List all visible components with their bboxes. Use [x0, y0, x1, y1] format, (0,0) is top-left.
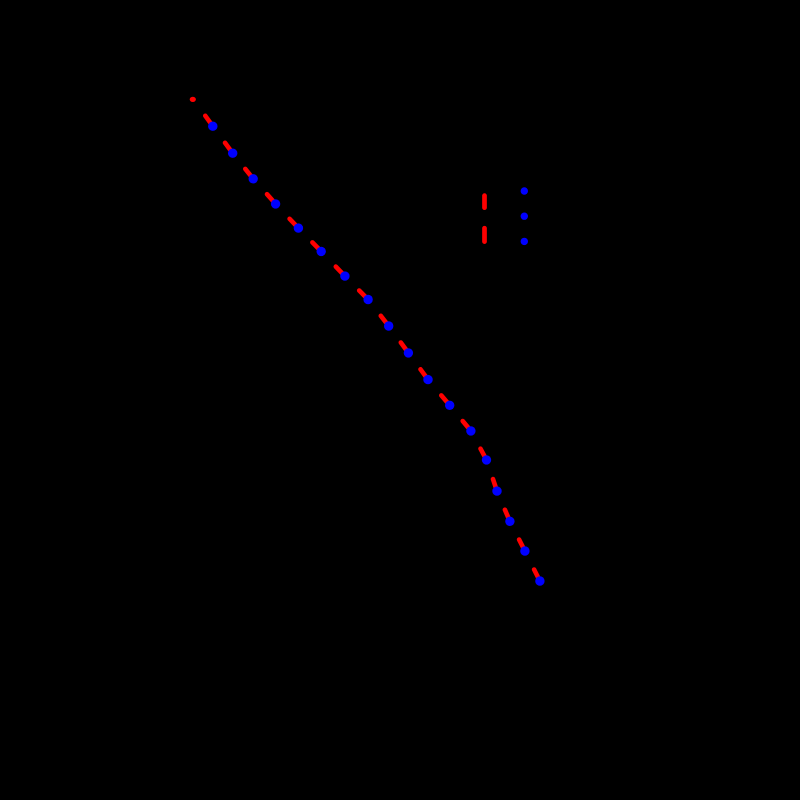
red dashed curve segment 2 — [225, 143, 233, 153]
blue data point 12 — [445, 401, 454, 410]
blue data point 6 — [317, 247, 326, 256]
red dashed curve segment 15 — [493, 479, 497, 491]
blue data point 2 — [228, 149, 237, 158]
blue data point 10 — [404, 348, 413, 357]
blue data point 17 — [520, 546, 529, 555]
legend: red dashed vertical line sample, dash 1 — [482, 196, 487, 208]
blue data point 11 — [423, 375, 432, 384]
red dashed curve segment 6 — [312, 242, 321, 251]
blue data point 8 — [363, 295, 372, 304]
blue data point 3 — [249, 174, 258, 183]
red dashed curve segment 12 — [441, 395, 449, 405]
red dashed fitted curve: start stub (clipped first dash) — [190, 97, 196, 102]
legend: blue point sample 2 — [521, 213, 528, 220]
red dashed curve segment 8 — [359, 291, 368, 300]
red dashed curve segment 13 — [463, 421, 471, 431]
red dashed curve segment 14 — [481, 449, 487, 460]
blue data point 1 — [208, 122, 217, 131]
blue data point 5 — [294, 223, 303, 232]
red dashed curve segment 18 — [534, 570, 540, 582]
legend: blue point sample 1 — [521, 187, 528, 194]
red dashed curve segment 4 — [267, 194, 276, 204]
red dashed curve segment 3 — [245, 169, 253, 179]
legend: red dashed vertical line sample, dash 2 — [482, 228, 487, 241]
blue data point 18 — [535, 576, 544, 585]
legend: blue point sample 3 — [521, 238, 528, 245]
red dashed curve segment 11 — [421, 369, 429, 379]
blue data point 14 — [482, 455, 491, 464]
blue data point 7 — [340, 271, 349, 280]
blue data point 16 — [505, 517, 514, 526]
red dashed curve segment 17 — [519, 540, 525, 551]
red dashed curve segment 7 — [336, 267, 345, 277]
blue data point 9 — [384, 321, 393, 330]
red dashed curve segment 5 — [290, 219, 299, 228]
blue data point 4 — [271, 199, 280, 208]
red dashed curve segment 10 — [401, 343, 409, 353]
red dashed curve segment 1 — [205, 116, 213, 126]
red dashed curve segment 9 — [381, 316, 389, 326]
red dashed curve segment 16 — [505, 510, 510, 522]
blue data point 13 — [466, 426, 475, 435]
blue data point 15 — [492, 486, 501, 495]
